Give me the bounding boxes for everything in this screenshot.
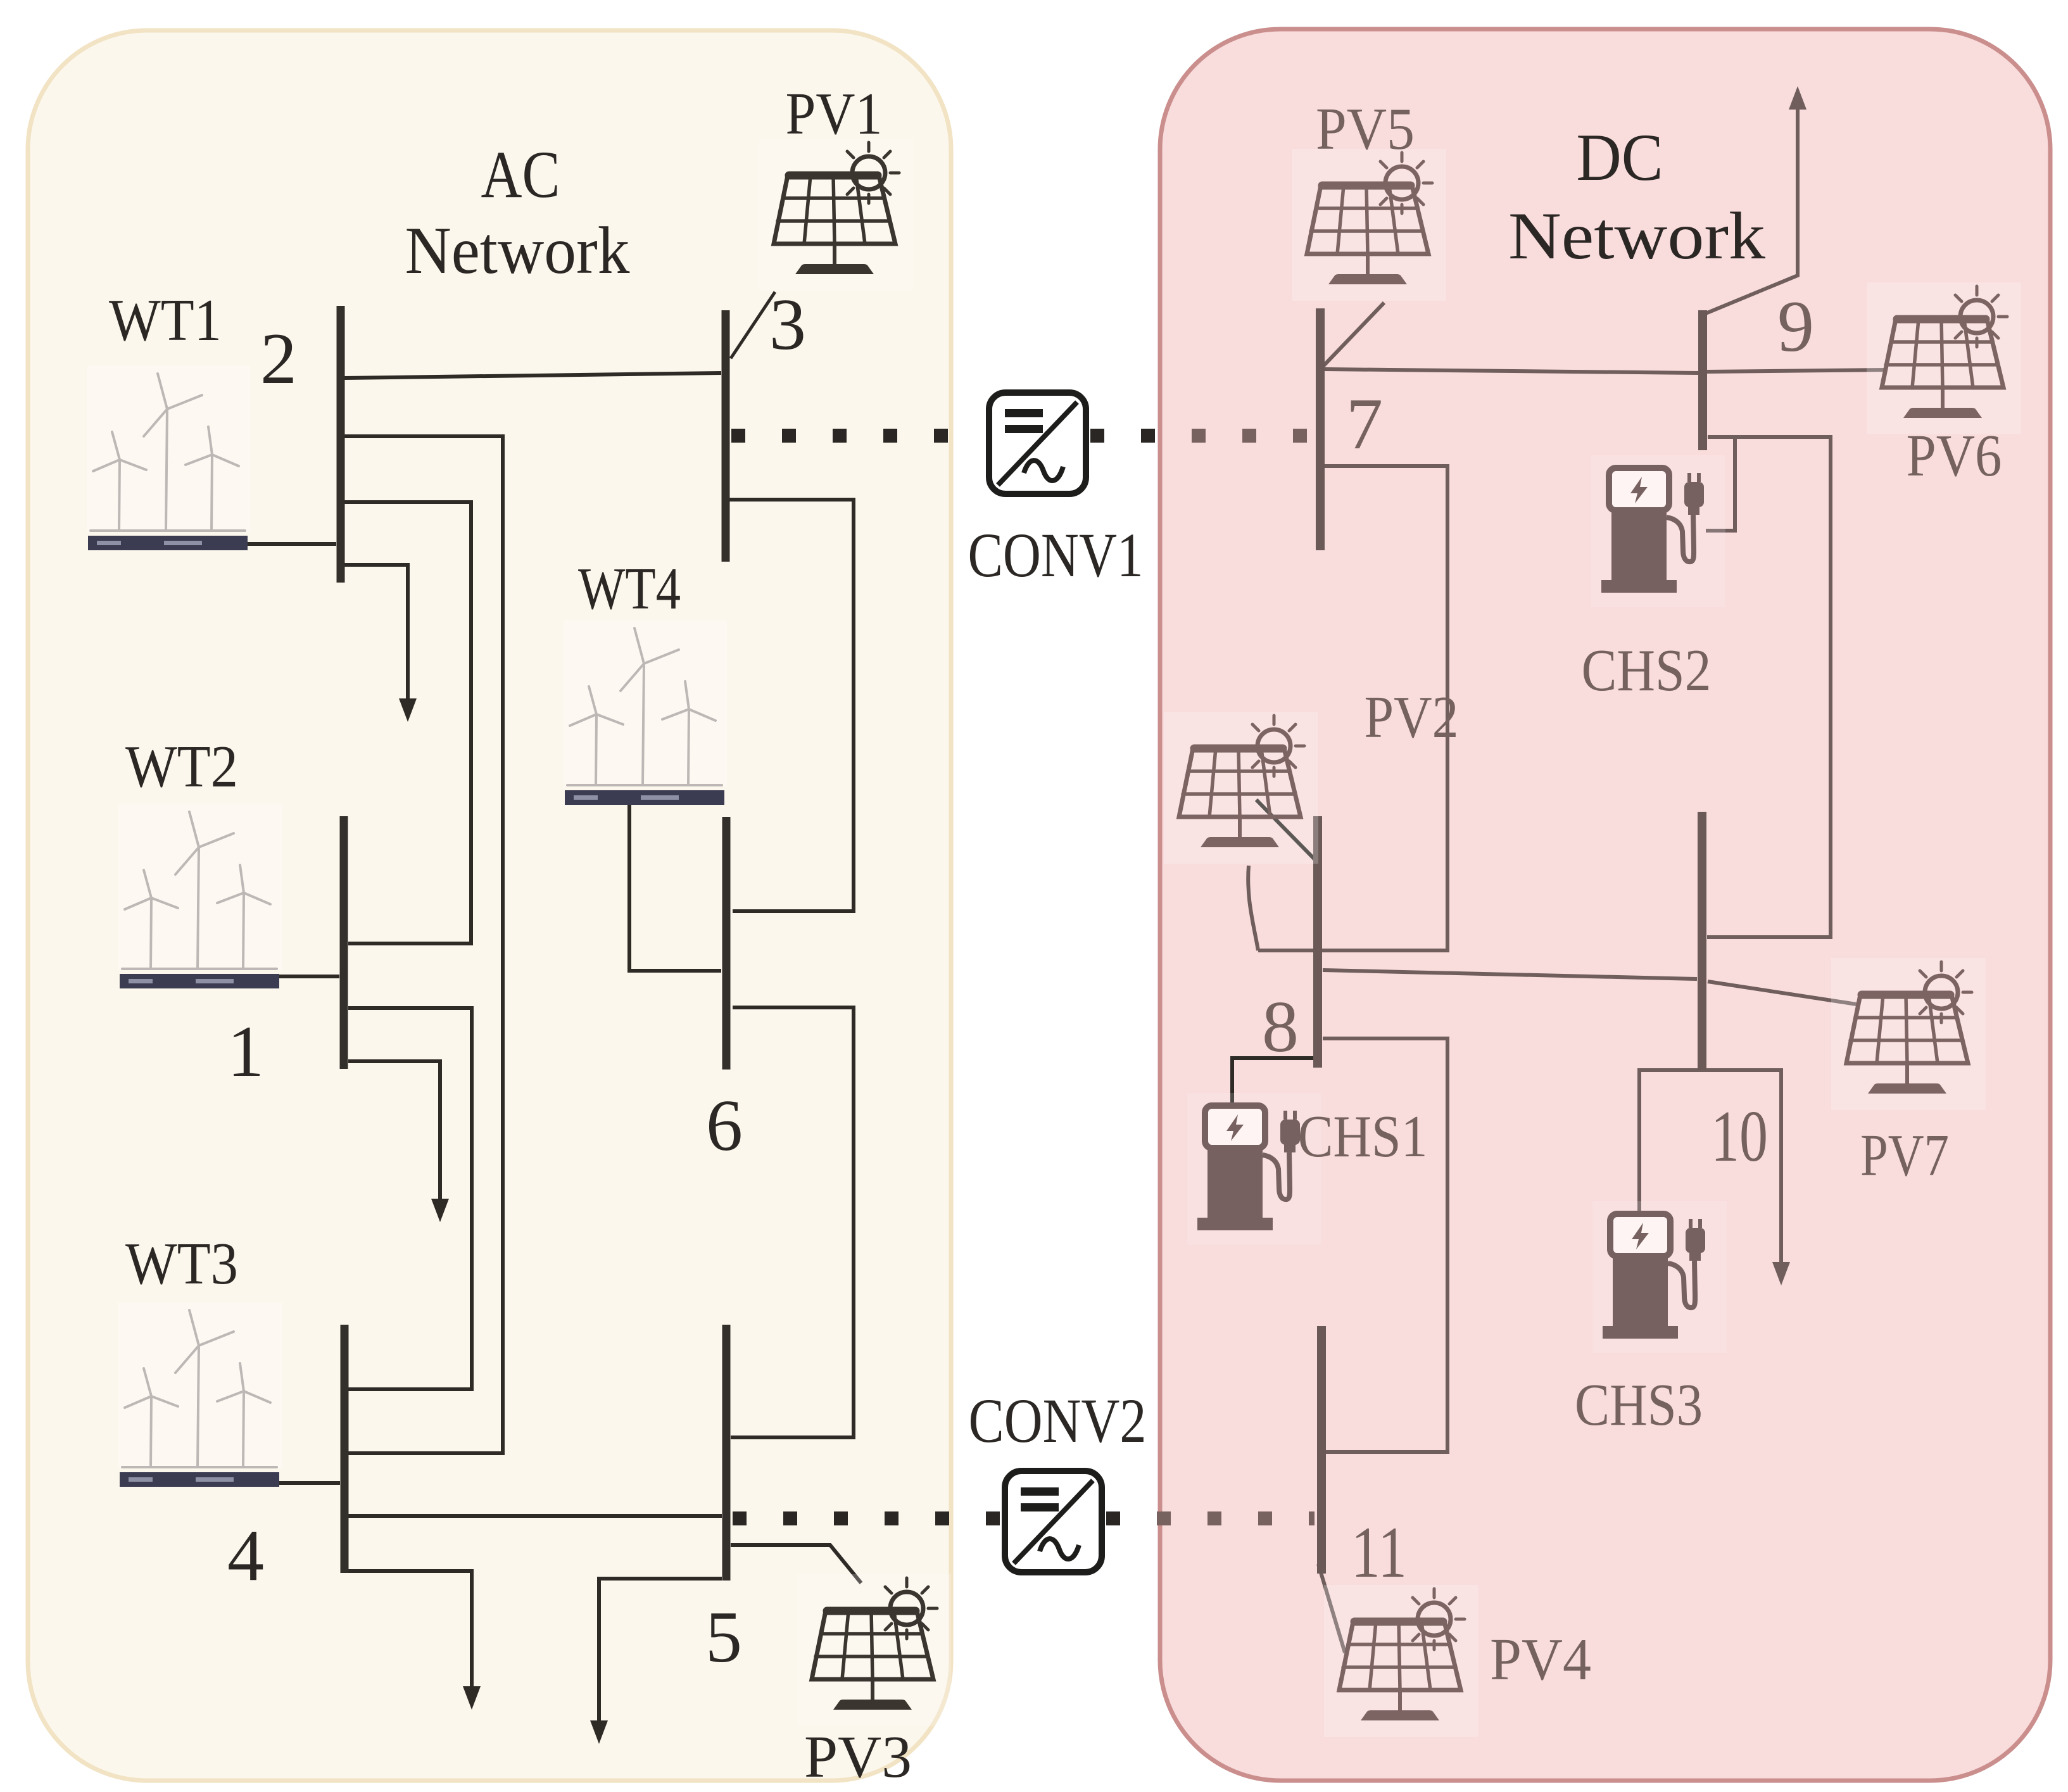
svg-text:PV5: PV5 xyxy=(1316,96,1415,162)
bus 9 xyxy=(1698,310,1707,450)
wire load on bus 1 xyxy=(348,1061,440,1202)
solar panel PV3 xyxy=(797,1574,951,1726)
svg-text:3: 3 xyxy=(769,284,806,365)
dotted tie CONV2 right xyxy=(1157,1511,1315,1525)
bus 11 xyxy=(1317,1326,1326,1574)
bus 6 xyxy=(722,817,731,1070)
bus 10 xyxy=(1698,812,1706,1070)
wire tick bus 3 to label xyxy=(731,292,775,358)
wire bus 5 to PV3 xyxy=(731,1545,861,1583)
solar panel PV6 xyxy=(1867,282,2021,434)
wire line 3-6 xyxy=(729,500,854,911)
svg-text:PV4: PV4 xyxy=(1490,1627,1591,1693)
converter CONV2 xyxy=(1005,1471,1102,1572)
wire line 8-11 xyxy=(1323,1038,1447,1452)
dotted tie CONV1 right xyxy=(1192,429,1313,443)
svg-text:WT3: WT3 xyxy=(125,1231,238,1297)
solar panel PV7 xyxy=(1831,958,1986,1110)
wire bus 10 to PV7 xyxy=(1708,981,1857,1004)
svg-text:PV7: PV7 xyxy=(1860,1123,1949,1189)
svg-text:5: 5 xyxy=(705,1597,742,1678)
svg-text:AC: AC xyxy=(481,137,560,211)
dotted tie CONV1 left xyxy=(731,429,1159,443)
svg-text:7: 7 xyxy=(1346,384,1383,465)
svg-text:PV3: PV3 xyxy=(804,1724,912,1790)
arrowhead load bus 1 xyxy=(431,1199,449,1222)
wire load on bus 5 xyxy=(599,1579,722,1724)
wire bus 9 to PV6 xyxy=(1707,370,1887,372)
wire WT1 to bus 2 xyxy=(247,542,336,546)
charging station CHS2 xyxy=(1591,455,1725,607)
svg-text:Network: Network xyxy=(1508,199,1765,273)
charging station CHS3 xyxy=(1592,1201,1727,1353)
arrowhead load bus 10 xyxy=(1772,1262,1790,1285)
wire PV2 stem xyxy=(1248,866,1258,950)
bus 4 xyxy=(341,1325,349,1573)
bus 3 xyxy=(722,310,730,562)
svg-text:PV6: PV6 xyxy=(1907,423,2002,489)
svg-text:WT2: WT2 xyxy=(125,734,238,800)
wire line 9-10 xyxy=(1707,437,1831,937)
wire load on bus 2 xyxy=(344,565,408,702)
svg-text:6: 6 xyxy=(706,1085,743,1166)
wire bus 9 up arrow diagonal xyxy=(1703,106,1798,315)
wire bus 9 to CHS2 xyxy=(1706,437,1735,531)
svg-text:10: 10 xyxy=(1711,1096,1768,1177)
arrowhead load bus 4 xyxy=(463,1686,481,1710)
svg-text:2: 2 xyxy=(260,319,297,400)
svg-text:1: 1 xyxy=(227,1011,264,1092)
bus 2 xyxy=(337,306,345,583)
svg-text:8: 8 xyxy=(1262,987,1299,1068)
wire WT3 to bus 4 xyxy=(279,1481,340,1485)
wire PV2 to bus 8 diagonal xyxy=(1256,800,1320,865)
bus 5 xyxy=(722,1325,731,1581)
svg-text:CHS2: CHS2 xyxy=(1582,638,1712,704)
DC network panel xyxy=(1160,29,2050,1781)
wind farm WT2 xyxy=(118,804,282,988)
wire line 7-8 via PV2 xyxy=(1258,466,1447,950)
svg-text:9: 9 xyxy=(1777,286,1814,367)
wire line 7-9 xyxy=(1325,369,1698,373)
wire bus 11 to PV4 xyxy=(1318,1564,1345,1653)
wire bus 8 to CHS1 xyxy=(1232,1058,1320,1103)
charging station CHS1 xyxy=(1187,1093,1321,1245)
svg-text:CONV1: CONV1 xyxy=(968,520,1144,590)
svg-text:DC: DC xyxy=(1577,120,1663,194)
solar panel PV5 xyxy=(1292,149,1446,301)
wire line 6-5 xyxy=(731,1007,854,1437)
dotted tie CONV2 left xyxy=(733,1511,1133,1525)
svg-text:Network: Network xyxy=(405,213,630,287)
bus 1 xyxy=(340,816,348,1069)
svg-text:WT4: WT4 xyxy=(578,556,681,622)
svg-text:CONV2: CONV2 xyxy=(969,1385,1147,1456)
wire line 2-1 xyxy=(344,502,471,943)
wind farm WT1 xyxy=(87,366,250,550)
wire bus 10 bottom tee xyxy=(1639,1070,1781,1265)
wire line 4-5 xyxy=(348,1514,722,1518)
AC network panel xyxy=(28,30,951,1781)
svg-text:PV2: PV2 xyxy=(1365,685,1459,750)
svg-text:4: 4 xyxy=(227,1515,264,1596)
arrowhead load bus 2 xyxy=(399,698,417,722)
bus 7 xyxy=(1316,308,1325,550)
wire load on bus 4 xyxy=(348,1571,472,1689)
wire bus 7 to PV5 xyxy=(1322,303,1384,367)
solar panel PV2 xyxy=(1164,712,1318,864)
solar panel PV1 xyxy=(759,139,913,291)
solar panel PV4 xyxy=(1324,1585,1478,1737)
wire line 2-4 xyxy=(344,436,503,1453)
bus 8 xyxy=(1313,816,1322,1068)
svg-text:WT1: WT1 xyxy=(109,287,222,353)
wire line 8-10 xyxy=(1323,970,1697,979)
wire WT2 to bus 1 xyxy=(279,975,339,978)
wire WT4 to bus 6 xyxy=(629,804,721,971)
svg-text:CHS3: CHS3 xyxy=(1575,1372,1703,1438)
svg-text:11: 11 xyxy=(1351,1512,1407,1593)
wind farm WT4 xyxy=(564,621,727,805)
wind farm WT3 xyxy=(118,1303,282,1487)
svg-text:CHS1: CHS1 xyxy=(1298,1104,1428,1170)
wire line 2-3 xyxy=(344,373,721,378)
converter CONV1 xyxy=(989,393,1086,494)
wire line 1-4 xyxy=(348,1008,472,1389)
arrowhead load bus 5 xyxy=(590,1720,608,1744)
arrowhead up bus 9 xyxy=(1789,86,1806,110)
svg-text:PV1: PV1 xyxy=(786,81,883,147)
